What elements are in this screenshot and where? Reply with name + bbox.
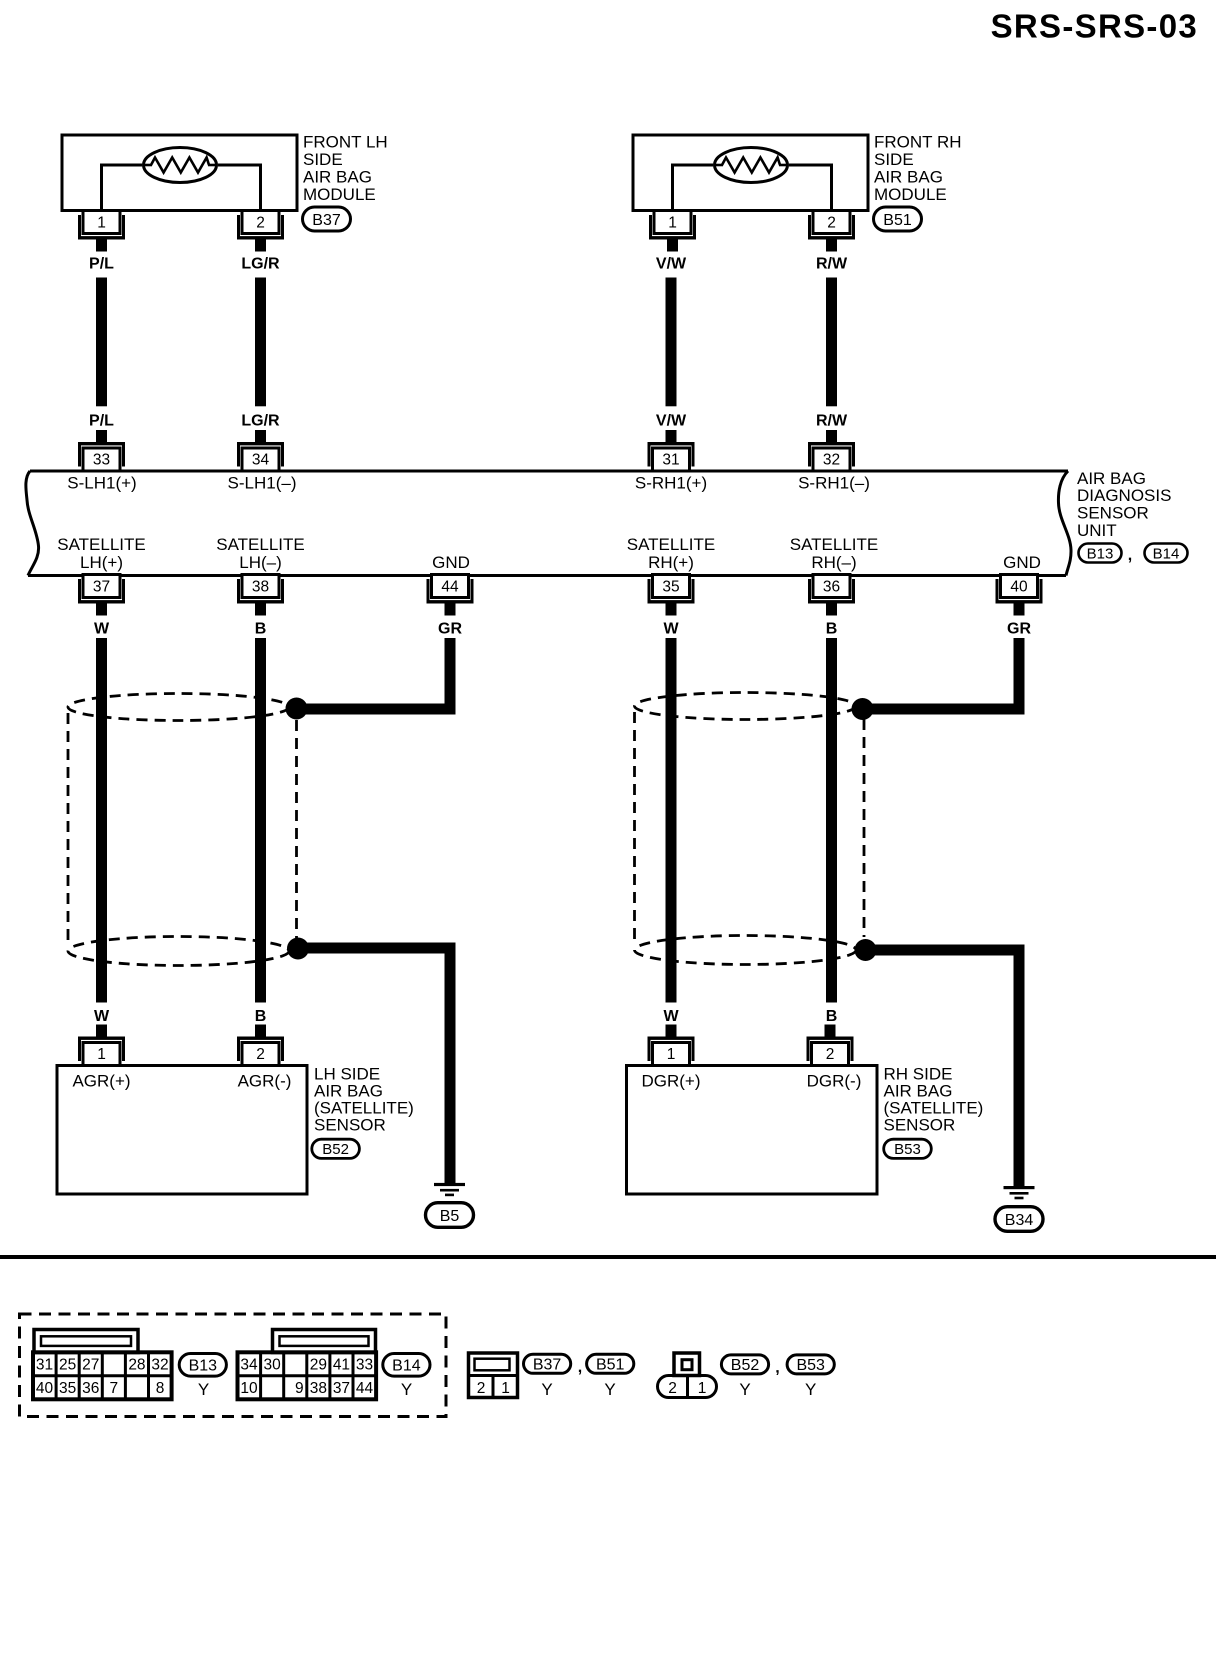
svg-text:2: 2: [827, 215, 836, 232]
svg-text:10: 10: [240, 1380, 258, 1397]
svg-text:B: B: [255, 1008, 267, 1025]
svg-text:Y: Y: [604, 1380, 615, 1399]
svg-text:P/L: P/L: [89, 413, 114, 430]
svg-text:SATELLITE: SATELLITE: [627, 535, 716, 554]
svg-text:SIDE: SIDE: [874, 150, 914, 169]
svg-text:SATELLITE: SATELLITE: [790, 535, 879, 554]
svg-text:AGR(+): AGR(+): [72, 1072, 130, 1091]
svg-text:GR: GR: [438, 621, 462, 638]
svg-text:27: 27: [82, 1357, 99, 1374]
svg-text:1: 1: [97, 215, 106, 232]
svg-text:44: 44: [356, 1380, 374, 1397]
svg-text:LH(–): LH(–): [239, 553, 282, 572]
svg-text:28: 28: [128, 1357, 145, 1374]
svg-text:Y: Y: [198, 1380, 209, 1399]
svg-text:SIDE: SIDE: [303, 150, 343, 169]
svg-text:,: ,: [1128, 547, 1132, 564]
svg-text:B52: B52: [322, 1141, 349, 1158]
svg-text:1: 1: [501, 1380, 510, 1397]
svg-text:33: 33: [93, 452, 110, 469]
svg-text:SATELLITE: SATELLITE: [57, 535, 146, 554]
svg-text:B51: B51: [883, 212, 912, 229]
svg-text:31: 31: [662, 452, 679, 469]
svg-text:B: B: [255, 621, 267, 638]
svg-text:,: ,: [775, 1360, 779, 1377]
svg-text:44: 44: [441, 579, 459, 596]
svg-text:37: 37: [333, 1380, 350, 1397]
svg-text:MODULE: MODULE: [303, 185, 376, 204]
svg-text:V/W: V/W: [656, 413, 687, 430]
svg-text:B5: B5: [440, 1208, 460, 1225]
svg-text:Y: Y: [541, 1380, 552, 1399]
svg-text:Y: Y: [739, 1380, 750, 1399]
svg-text:7: 7: [110, 1380, 119, 1397]
svg-text:W: W: [663, 621, 679, 638]
svg-text:B52: B52: [731, 1357, 760, 1374]
svg-text:2: 2: [477, 1380, 486, 1397]
svg-text:32: 32: [823, 452, 840, 469]
svg-text:SATELLITE: SATELLITE: [216, 535, 305, 554]
svg-text:9: 9: [295, 1380, 304, 1397]
svg-text:35: 35: [59, 1380, 76, 1397]
svg-text:GND: GND: [432, 553, 470, 572]
svg-text:2: 2: [256, 215, 265, 232]
svg-text:W: W: [94, 621, 110, 638]
svg-text:UNIT: UNIT: [1077, 521, 1117, 540]
svg-text:W: W: [94, 1008, 110, 1025]
svg-text:B14: B14: [392, 1358, 421, 1375]
svg-text:41: 41: [333, 1357, 350, 1374]
svg-text:B53: B53: [894, 1141, 921, 1158]
svg-text:32: 32: [151, 1357, 168, 1374]
svg-text:B13: B13: [189, 1358, 218, 1375]
svg-text:B37: B37: [312, 212, 341, 229]
svg-text:1: 1: [698, 1380, 707, 1397]
svg-text:34: 34: [240, 1357, 258, 1374]
svg-text:LH(+): LH(+): [80, 553, 123, 572]
svg-text:S-RH1(+): S-RH1(+): [635, 474, 707, 493]
svg-text:40: 40: [1010, 579, 1028, 596]
svg-text:DGR(-): DGR(-): [807, 1072, 862, 1091]
svg-text:SRS-SRS-03: SRS-SRS-03: [991, 8, 1198, 45]
svg-text:LG/R: LG/R: [241, 413, 280, 430]
svg-text:SENSOR: SENSOR: [1077, 504, 1149, 523]
svg-text:GR: GR: [1007, 621, 1031, 638]
svg-text:B: B: [826, 1008, 838, 1025]
svg-text:2: 2: [256, 1046, 265, 1063]
svg-text:P/L: P/L: [89, 256, 114, 273]
svg-text:RH(–): RH(–): [811, 553, 856, 572]
svg-text:B34: B34: [1005, 1212, 1034, 1229]
svg-text:40: 40: [36, 1380, 54, 1397]
svg-text:SENSOR: SENSOR: [314, 1116, 386, 1135]
svg-text:Y: Y: [401, 1380, 412, 1399]
svg-text:LG/R: LG/R: [241, 256, 280, 273]
svg-text:S-LH1(+): S-LH1(+): [67, 474, 136, 493]
svg-text:AIR BAG: AIR BAG: [874, 167, 943, 186]
svg-text:B51: B51: [596, 1357, 625, 1374]
svg-text:37: 37: [93, 579, 110, 596]
svg-text:R/W: R/W: [816, 256, 848, 273]
svg-text:2: 2: [668, 1380, 677, 1397]
svg-text:35: 35: [662, 579, 679, 596]
svg-text:31: 31: [36, 1357, 53, 1374]
svg-text:B: B: [826, 621, 838, 638]
svg-text:36: 36: [823, 579, 840, 596]
svg-text:38: 38: [310, 1380, 327, 1397]
svg-text:1: 1: [667, 1046, 676, 1063]
svg-text:S-LH1(–): S-LH1(–): [228, 474, 297, 493]
svg-text:FRONT LH: FRONT LH: [303, 132, 388, 151]
svg-text:38: 38: [252, 579, 269, 596]
svg-text:B13: B13: [1087, 545, 1114, 562]
svg-text:R/W: R/W: [816, 413, 848, 430]
svg-text:B14: B14: [1153, 545, 1180, 562]
svg-text:AIR BAG: AIR BAG: [303, 167, 372, 186]
svg-text:DGR(+): DGR(+): [641, 1072, 700, 1091]
svg-text:1: 1: [668, 215, 677, 232]
svg-text:29: 29: [310, 1357, 327, 1374]
svg-text:V/W: V/W: [656, 256, 687, 273]
svg-text:33: 33: [356, 1357, 373, 1374]
svg-text:DIAGNOSIS: DIAGNOSIS: [1077, 486, 1171, 505]
svg-text:W: W: [663, 1008, 679, 1025]
svg-text:MODULE: MODULE: [874, 185, 947, 204]
svg-text:2: 2: [826, 1046, 835, 1063]
svg-text:1: 1: [97, 1046, 106, 1063]
svg-text:RH(+): RH(+): [648, 553, 694, 572]
svg-text:30: 30: [264, 1357, 282, 1374]
svg-text:,: ,: [578, 1359, 582, 1376]
svg-text:Y: Y: [805, 1380, 816, 1399]
svg-text:34: 34: [252, 452, 270, 469]
svg-text:AGR(-): AGR(-): [238, 1072, 292, 1091]
svg-text:36: 36: [82, 1380, 99, 1397]
svg-text:25: 25: [59, 1357, 76, 1374]
svg-text:SENSOR: SENSOR: [884, 1116, 956, 1135]
svg-text:B53: B53: [796, 1357, 825, 1374]
svg-text:B37: B37: [533, 1357, 562, 1374]
svg-text:GND: GND: [1003, 553, 1041, 572]
svg-text:S-RH1(–): S-RH1(–): [798, 474, 870, 493]
svg-text:FRONT RH: FRONT RH: [874, 132, 962, 151]
svg-text:8: 8: [156, 1380, 165, 1397]
